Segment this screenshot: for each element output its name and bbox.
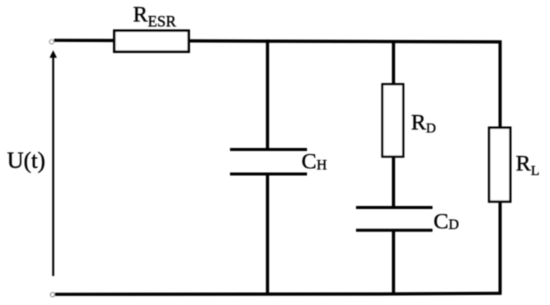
node bottom left terminal: [50, 292, 54, 296]
wire top right segment: [189, 41, 502, 42]
wire bottom: [55, 293, 502, 294]
wire right vertical lower: [499, 202, 502, 295]
arrow U(t) source indicator: [50, 50, 57, 276]
wire branch CH lower: [266, 174, 269, 295]
svg-text:U(t): U(t): [7, 148, 45, 173]
resistor R_D: [382, 84, 403, 156]
wire right vertical upper: [499, 41, 502, 128]
capacitor C_H: [230, 150, 307, 175]
wire branch RD-CD middle: [392, 157, 395, 208]
resistor R_ESR: [114, 31, 188, 52]
wire top left segment: [54, 39, 114, 42]
wire branch CD lower: [392, 230, 395, 294]
wire branch RD upper: [392, 40, 395, 85]
wire branch CH upper: [266, 40, 269, 150]
node top left terminal: [49, 40, 53, 44]
resistor R_L: [489, 128, 510, 202]
capacitor C_D: [356, 208, 433, 231]
